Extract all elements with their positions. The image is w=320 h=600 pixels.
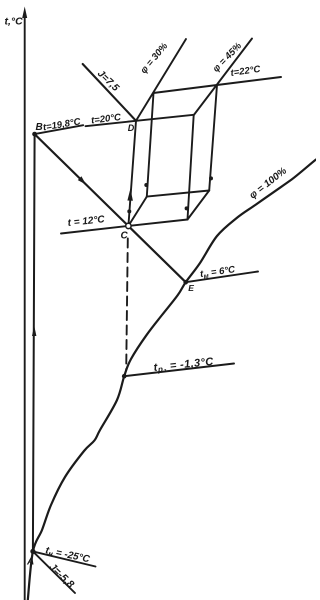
arrow on A-B line (32, 326, 36, 337)
svg-text:t,°C: t,°C (5, 16, 24, 28)
dot on Q3-P3 edge (185, 206, 189, 210)
arrow on B-C segment (78, 176, 86, 184)
isotherm t=22C (217, 77, 281, 85)
svg-text:C: C (121, 231, 129, 242)
isotherm t=20C underline to D (86, 115, 194, 126)
enthalpy line J=7.5 to D (83, 64, 136, 121)
box edge P3-Q3 (188, 115, 194, 220)
dot on Q1-P1 edge (144, 183, 148, 187)
isotherm tp=-1.3C (124, 364, 234, 377)
box edge C-Q3 (128, 220, 187, 226)
isotherm t=12C (61, 226, 128, 234)
point C open circle (126, 223, 131, 228)
point E (183, 280, 188, 285)
svg-text:t=22°C: t=22°C (230, 64, 261, 79)
box edge P1-Q1 (147, 93, 154, 197)
box edge Q3-Q2 (188, 191, 210, 220)
t axis (24, 16, 26, 600)
svg-text:t=20°C: t=20°C (91, 112, 122, 127)
box edge C-Q1 (128, 197, 146, 226)
svg-text:tн = -25°C: tн = -25°C (44, 545, 91, 566)
arrow on C-D edge (127, 189, 132, 201)
svg-text:D: D (128, 123, 135, 133)
saturation curve phi=100% (28, 160, 316, 600)
enthalpy line J=-5.8 (33, 551, 75, 593)
humidity line phi=45% (194, 39, 252, 116)
dot on Q2-P2 edge (209, 176, 213, 180)
box edge C-D (128, 121, 136, 226)
svg-text:A: A (26, 557, 34, 568)
isotherm tM=6C (186, 272, 258, 283)
humidity line phi=30% (136, 39, 186, 121)
svg-text:tp₂ = -1,3°C: tp₂ = -1,3°C (153, 356, 215, 375)
isotherm t=19.8C through B (35, 125, 84, 134)
point B (32, 132, 37, 137)
svg-text:J=-5,8: J=-5,8 (46, 561, 76, 591)
isotherm tH=-25C (33, 551, 96, 566)
svg-text:tм = 6°C: tм = 6°C (199, 264, 236, 281)
box edge P1-P2 (153, 85, 217, 93)
svg-text:E: E (188, 283, 194, 293)
box edge Q1-Q2 (147, 191, 209, 197)
process line B-C-E (35, 134, 186, 282)
dot on C-D edge (127, 209, 131, 213)
axis arrowhead (22, 7, 27, 19)
box edge P2-Q2 (209, 85, 217, 191)
heating line A-B (33, 134, 35, 551)
dashed dew-point drop line (126, 239, 128, 371)
point A (30, 549, 35, 554)
svg-text:t=19,8°C: t=19,8°C (42, 116, 81, 133)
dew point on curve (122, 374, 127, 379)
svg-text:t = 12°C: t = 12°C (67, 214, 106, 229)
